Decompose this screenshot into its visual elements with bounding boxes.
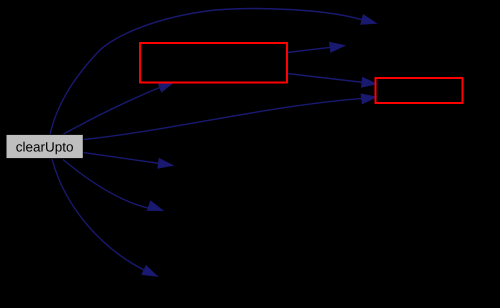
node: red box 2 (truncated callee, label hidden): [376, 78, 463, 103]
arrowhead A: [361, 15, 377, 25]
arrowhead H: [147, 201, 163, 211]
wire edge F: clearUpto to red box 2: [84, 98, 364, 139]
wire edge A: clearUpto to top-right node (big arc): [50, 9, 368, 135]
arrowhead D: [330, 42, 346, 52]
wire edge D: red box 1 to mid-right node: [287, 47, 333, 52]
arrowhead E: [361, 77, 377, 87]
node clearUpto (current node): [6, 134, 83, 158]
arrowhead F: [361, 94, 377, 104]
wire edge B: clearUpto to red box 1: [63, 84, 168, 134]
wire edge G: clearUpto to near-right node: [84, 153, 160, 164]
wire edge I: clearUpto to bottom node: [52, 159, 158, 276]
arrowhead I: [142, 266, 158, 277]
wire edge E: red box 1 to red box 2: [287, 74, 364, 83]
svg-text:clearUpto: clearUpto: [16, 139, 74, 154]
arrowhead G: [158, 158, 174, 168]
wire edge H: clearUpto to lower node: [63, 160, 163, 211]
arrowhead B: [158, 82, 174, 92]
node: red box 1 (truncated callee, label hidden): [140, 43, 287, 83]
